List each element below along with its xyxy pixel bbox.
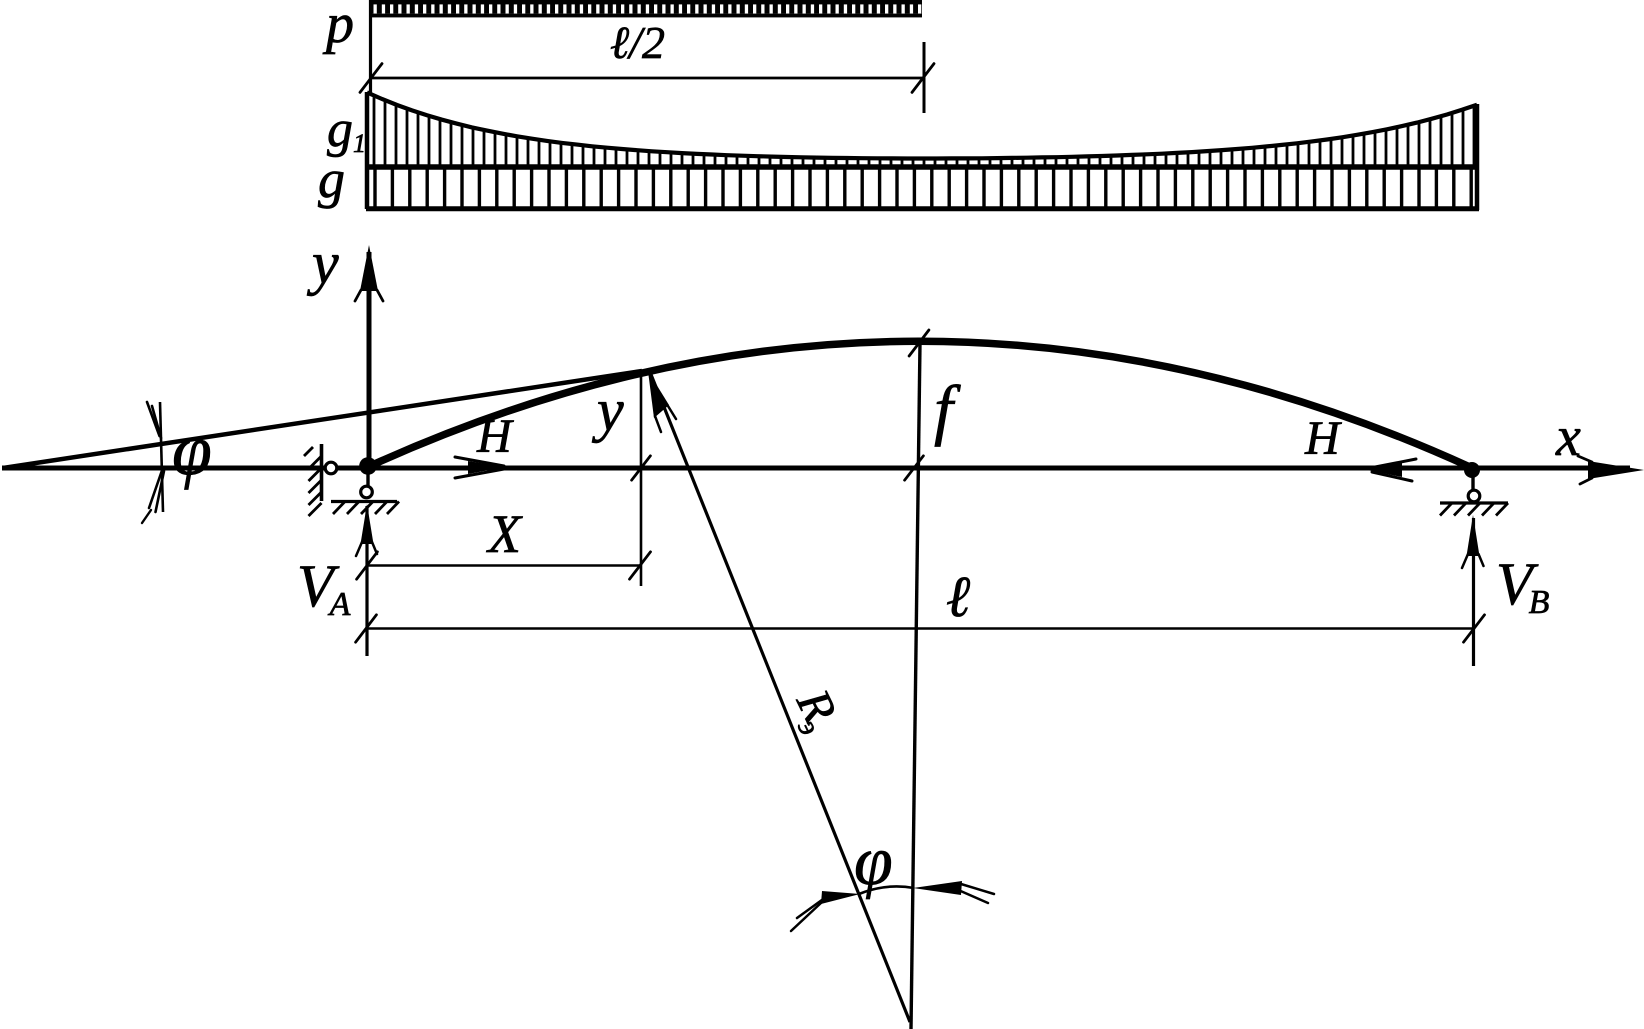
thrust H right arrow (1367, 459, 1416, 481)
dimension l (356, 615, 1485, 642)
svg-text:φ: φ (172, 410, 212, 490)
dimension l/2 (360, 0, 934, 113)
svg-text:H: H (1304, 412, 1342, 465)
tangent line (3, 371, 642, 468)
load g1 (367, 92, 1477, 210)
svg-text:p: p (322, 0, 354, 55)
radius R line (648, 371, 910, 1022)
angle phi bottom (791, 881, 994, 931)
support A wall (304, 444, 337, 516)
origin hinge (359, 457, 377, 475)
support B hinge (1440, 462, 1508, 516)
svg-text:g: g (318, 149, 345, 209)
thrust H left arrow (455, 457, 506, 478)
svg-text:ℓ/2: ℓ/2 (610, 17, 665, 68)
dimension x (357, 552, 651, 579)
angle phi left (142, 402, 164, 523)
centre line / dimension f (905, 330, 929, 1029)
support A pin (331, 468, 399, 514)
svg-text:X: X (486, 504, 523, 564)
svg-text:ℓ: ℓ (946, 564, 970, 629)
reaction VB arrow (1462, 515, 1484, 666)
reaction VA arrow (356, 504, 377, 656)
y-axis (355, 245, 383, 468)
x-axis (2, 456, 1644, 484)
svg-text:φ: φ (854, 823, 893, 900)
load g (366, 167, 1479, 209)
svg-text:H: H (476, 410, 514, 463)
svg-text:x: x (1555, 406, 1581, 468)
dimension y line (632, 372, 651, 586)
arch (370, 341, 1470, 467)
load p strip (370, 0, 922, 17)
